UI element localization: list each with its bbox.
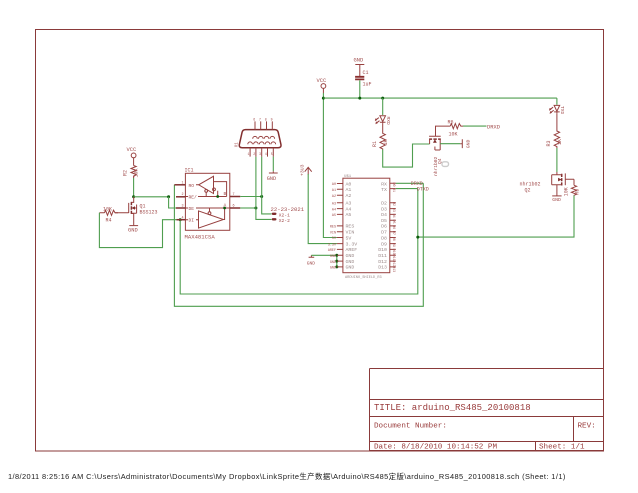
wire DI loop bottom to DTXD (180, 189, 418, 294)
resistor R3 (546, 113, 563, 148)
wire Q4 drain to R6 (436, 126, 451, 130)
svg-text:D0: D0 (391, 183, 395, 187)
wire DB9 pin5 to ground (272, 157, 274, 172)
svg-text:22-23-2021: 22-23-2021 (271, 206, 305, 213)
svg-text:4: 4 (265, 152, 267, 156)
svg-text:U$1: U$1 (344, 174, 352, 179)
frame border (36, 30, 604, 452)
wire VCC rail (323, 97, 557, 99)
resistor R5 (563, 185, 580, 196)
wire RX to DRXD (396, 182, 424, 184)
svg-text:D8: D8 (381, 235, 387, 241)
net label DRXD shield (411, 181, 423, 187)
svg-text:DRXD: DRXD (487, 124, 500, 130)
svg-text:RXD: RXD (385, 117, 391, 126)
svg-text:GND: GND (552, 197, 561, 203)
svg-text:RX: RX (381, 181, 387, 187)
LED TXD (550, 105, 566, 114)
svg-text:IC1: IC1 (185, 168, 194, 174)
svg-text:D6: D6 (381, 224, 387, 230)
svg-text:VCC: VCC (127, 147, 137, 153)
wire DB9 pin3 to X2-1 (262, 157, 272, 214)
svg-text:VIN: VIN (330, 231, 336, 235)
svg-text:A4: A4 (332, 208, 336, 212)
svg-text:D13: D13 (378, 265, 387, 271)
svg-text:RES: RES (330, 226, 336, 230)
wire R6 to DRXD label (463, 125, 487, 127)
pin stubs X1 top (253, 118, 272, 130)
supply VCC top (317, 78, 327, 93)
transistor Q1 (126, 197, 158, 226)
svg-text:ARDUINO_SHIELD_R3: ARDUINO_SHIELD_R3 (345, 276, 382, 280)
wire R4 loop to DI (99, 213, 180, 248)
svg-text:C1: C1 (363, 70, 369, 76)
svg-text:VCC: VCC (317, 78, 327, 84)
svg-text:TXD: TXD (559, 106, 565, 115)
node RE/DE (167, 195, 170, 198)
svg-text:D2: D2 (381, 201, 387, 207)
svg-text:GND: GND (465, 140, 471, 149)
wire RE node down to DE (169, 197, 176, 208)
wire Q4 source to ground (440, 143, 460, 145)
ground DB9 (267, 171, 278, 182)
svg-text:9: 9 (271, 118, 273, 122)
svg-text:D12: D12 (378, 259, 387, 265)
svg-text:R3: R3 (546, 140, 552, 146)
svg-text:REV:: REV: (578, 423, 596, 431)
resistor R4 (99, 206, 126, 223)
svg-text:8: 8 (265, 118, 267, 122)
svg-text:D7: D7 (391, 231, 395, 235)
sheet text (539, 444, 585, 452)
svg-text:A4: A4 (346, 206, 352, 212)
capacitor C1 (355, 70, 371, 88)
svg-text:1/8/2011 8:25:16 AM C:\Users\: 1/8/2011 8:25:16 AM C:\Users\Administrat… (8, 472, 566, 481)
svg-text:R4: R4 (106, 218, 112, 224)
wire R3 to Q2 drain (556, 148, 558, 172)
connector X1 DB9 (235, 130, 281, 148)
svg-text:A3: A3 (332, 203, 336, 207)
svg-text:GND: GND (330, 267, 336, 271)
node LED RXD rail (381, 97, 384, 100)
node GND1 (335, 254, 338, 257)
node DI (179, 218, 182, 221)
svg-text:1K: 1K (557, 139, 563, 145)
svg-text:TITLE: arduino_RS485_20100818: TITLE: arduino_RS485_20100818 (374, 403, 531, 413)
wire R2 to node (133, 178, 135, 197)
shield left pin stubs (337, 184, 343, 267)
shield right pin names inside (378, 181, 387, 270)
node B (260, 195, 263, 198)
svg-text:X1: X1 (235, 142, 239, 148)
svg-text:GND: GND (354, 58, 364, 64)
pin stub B (230, 196, 241, 198)
wire DB9 pin2 to X2-2 (256, 157, 272, 220)
svg-text:D10: D10 (378, 247, 387, 253)
svg-text:GND: GND (346, 253, 355, 259)
svg-text:A5: A5 (346, 212, 352, 218)
pin stub RO (174, 184, 185, 186)
wire TX to DTXD (396, 188, 418, 190)
svg-text:A2: A2 (332, 195, 336, 199)
svg-text:AREF: AREF (328, 249, 336, 253)
node C1 rail (358, 97, 361, 100)
LED RXD (376, 116, 392, 125)
svg-text:1K: 1K (383, 139, 389, 145)
wire rail to LED TXD (556, 98, 558, 105)
svg-text:D9: D9 (391, 243, 395, 247)
svg-text:GND: GND (307, 261, 316, 267)
connector U$1 arduino shield (343, 174, 390, 280)
svg-text:GND: GND (330, 261, 336, 265)
svg-text:RO: RO (189, 183, 195, 189)
svg-text:R5: R5 (574, 189, 580, 195)
svg-text:D1: D1 (391, 188, 395, 192)
svg-text:D5: D5 (391, 220, 395, 224)
title text (374, 403, 531, 413)
svg-text:RES: RES (346, 224, 355, 230)
supply VCC left (127, 147, 137, 166)
svg-text:D5: D5 (381, 218, 387, 224)
svg-text:R1: R1 (372, 141, 378, 147)
svg-text:GND: GND (267, 176, 276, 182)
svg-text:A1: A1 (346, 187, 352, 193)
transistor Q2 (520, 172, 575, 196)
wire rail to LED RXD (382, 98, 384, 115)
svg-text:D4: D4 (381, 212, 387, 218)
op-amp IC1 MAX481CSA (182, 168, 235, 241)
resistor R6 (448, 120, 464, 138)
svg-text:3.3V: 3.3V (328, 243, 337, 247)
svg-text:BSS123: BSS123 (140, 210, 158, 216)
date text (374, 444, 497, 452)
shield right pin labels outside (391, 183, 395, 273)
svg-text:X2-2: X2-2 (279, 218, 290, 224)
svg-text:D13: D13 (391, 266, 395, 272)
ground Q1 (128, 226, 138, 234)
svg-text:GND: GND (346, 265, 355, 271)
resistor R2 (123, 166, 140, 179)
svg-text:A: A (224, 202, 227, 208)
wire node to RE/DE (134, 196, 169, 198)
svg-text:DE: DE (189, 206, 195, 212)
wire ground to GND pins (311, 255, 337, 267)
pin stub RE (176, 196, 185, 198)
svg-text:5V: 5V (346, 235, 352, 241)
svg-text:D2: D2 (391, 202, 395, 206)
net label DRXD right (487, 124, 500, 130)
svg-text:D6: D6 (391, 225, 395, 229)
svg-text:10K: 10K (563, 187, 569, 196)
svg-text:R6: R6 (448, 120, 454, 126)
resistor R1 (372, 124, 389, 150)
wire VCC drop to 5V pin (323, 93, 337, 238)
svg-text:10K: 10K (103, 206, 112, 212)
pin stub DI (177, 219, 186, 221)
wire R1 to Q4 gate (383, 144, 430, 167)
svg-text:A0: A0 (346, 181, 352, 187)
svg-text:GND: GND (330, 255, 336, 259)
wire A net (240, 207, 256, 209)
rev label (578, 423, 596, 431)
pin stubs X1 bottom (248, 148, 274, 157)
wire B net (240, 196, 261, 198)
svg-text:1uF: 1uF (363, 82, 372, 88)
supply +3V3 arrow (300, 164, 312, 176)
svg-text:Document Number:: Document Number: (374, 423, 447, 431)
svg-text:D9: D9 (381, 241, 387, 247)
node A (254, 207, 257, 210)
gray value mark Q4 (442, 162, 449, 167)
svg-text:D3: D3 (391, 208, 395, 212)
svg-text:+3U3: +3U3 (300, 164, 306, 176)
svg-text:TX: TX (381, 187, 387, 193)
svg-text:Q2: Q2 (525, 187, 531, 193)
svg-text:D3: D3 (381, 206, 387, 212)
svg-text:A1: A1 (332, 189, 336, 193)
node R2/Q1 (132, 195, 135, 198)
document number label (374, 423, 447, 431)
net label DTXD shield (417, 186, 429, 192)
svg-text:Sheet: 1/1: Sheet: 1/1 (539, 444, 585, 452)
pin stub A (230, 207, 241, 209)
svg-text:2: 2 (253, 152, 255, 156)
svg-text:10K: 10K (134, 168, 140, 177)
connector X2 22-23-2021 (271, 206, 305, 224)
wire RO loop bottom to DRXD (174, 183, 423, 306)
svg-text:6: 6 (253, 118, 255, 122)
svg-text:10K: 10K (449, 131, 458, 137)
svg-text:5: 5 (271, 152, 273, 156)
svg-text:VIN: VIN (346, 230, 355, 236)
shield right pin stubs (390, 183, 396, 267)
node GND3 (335, 265, 338, 268)
svg-text:A5: A5 (332, 214, 336, 218)
svg-text:3: 3 (259, 152, 261, 156)
node VCC rail left (322, 97, 325, 100)
svg-text:GND: GND (128, 228, 138, 234)
svg-text:DI: DI (189, 218, 195, 224)
svg-text:DTXD: DTXD (417, 186, 429, 192)
wire R5 to DTXD net (418, 195, 574, 237)
node DTXD (416, 236, 419, 239)
svg-text:7: 7 (259, 118, 261, 122)
title block (370, 369, 604, 452)
shield left pin names inside (346, 181, 358, 270)
svg-text:3.3V: 3.3V (346, 241, 358, 247)
svg-text:X2-1: X2-1 (279, 212, 290, 218)
pin stub DE (176, 207, 185, 209)
wire 3V3 to 3.3V pin (308, 174, 337, 244)
transistor Q4 (429, 130, 443, 176)
svg-text:A0: A0 (332, 183, 336, 187)
svg-text:Date: 8/18/2010 10:14:52 PM: Date: 8/18/2010 10:14:52 PM (374, 444, 497, 452)
wire C1 to rail (359, 80, 361, 98)
svg-text:1: 1 (248, 152, 250, 156)
svg-text:A2: A2 (346, 193, 352, 199)
svg-text:A3: A3 (346, 201, 352, 207)
svg-text:MAX481CSA: MAX481CSA (185, 234, 216, 241)
shield left pin labels outside (328, 183, 337, 270)
ground Q4 rotated (460, 139, 471, 148)
svg-text:GND: GND (346, 259, 355, 265)
svg-text:D11: D11 (378, 253, 387, 259)
ground C1 (354, 58, 365, 77)
svg-text:B: B (224, 191, 227, 197)
svg-text:RE/: RE/ (189, 195, 198, 201)
svg-text:D8: D8 (391, 237, 395, 241)
node GND2 (335, 260, 338, 263)
ground shield (307, 255, 316, 266)
svg-text:AREF: AREF (346, 247, 358, 253)
svg-text:R2: R2 (123, 170, 129, 176)
svg-text:D4: D4 (391, 214, 395, 218)
footer caption (8, 472, 566, 481)
svg-text:D7: D7 (381, 230, 387, 236)
ground Q2 (552, 196, 561, 203)
